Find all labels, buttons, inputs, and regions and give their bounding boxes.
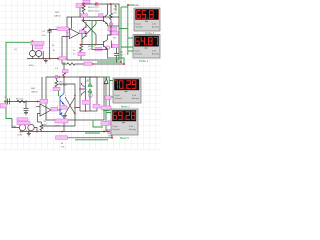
wire V2 left: [12, 119, 19, 128]
svg-text:Sample: Sample: [115, 98, 123, 100]
wire bottom rail: [20, 128, 110, 132]
node dot: [95, 44, 97, 46]
node dot: [49, 29, 51, 31]
node dot: [123, 63, 125, 65]
ring pink r5: [110, 23, 113, 26]
resistor R3 horizontal: [17, 100, 25, 102]
wire stub v1r: [42, 51, 44, 59]
source V2 circles: [19, 124, 25, 130]
node dot: [31, 40, 33, 42]
label pink R9: [63, 70, 69, 73]
ring pink probe: [89, 94, 93, 98]
label pink base node: [60, 106, 67, 109]
wire inner stubs: [89, 77, 91, 111]
label pink m4pin1: [108, 121, 111, 125]
node dot: [28, 131, 30, 133]
node dot: [95, 3, 97, 5]
node dot: [103, 131, 105, 133]
node dot: [20, 131, 22, 133]
node dot: [42, 58, 44, 60]
arrow Q5 blue: [62, 102, 64, 104]
wire input green left loop: [6, 42, 32, 118]
node dot: [74, 95, 76, 97]
wire top supply rail: [80, 4, 119, 17]
wire U2 out: [51, 109, 60, 111]
svg-text:Sample: Sample: [113, 129, 121, 131]
svg-text:Digits: Digits: [136, 23, 142, 26]
op-amp U1: [70, 29, 80, 39]
arrow QT1: [105, 22, 107, 24]
wire green meter3 column: [104, 77, 113, 111]
node dot: [110, 31, 112, 33]
svg-text:R3 10k: R3 10k: [16, 99, 24, 101]
diode D3: [104, 77, 108, 120]
svg-text:UA741: UA741: [31, 91, 38, 94]
label pink in2: [40, 99, 48, 103]
transistor Q3 mirrored top: [82, 20, 86, 45]
capacitor C2: [8, 99, 10, 105]
transistor QT2 right bottom: [104, 38, 108, 50]
resistor R6: [40, 122, 43, 132]
resistor R10 inner: [55, 79, 58, 88]
label pink out2: [51, 107, 58, 111]
wire Q5 Q6 links: [60, 77, 64, 132]
label pink rail b: [76, 4, 82, 8]
node dot: [37, 101, 39, 103]
svg-text:(V): (V): [14, 49, 17, 51]
node dot: [92, 63, 94, 65]
node dot: [57, 58, 59, 60]
wire gnd rail stage1: [27, 57, 62, 65]
wire bottom feedback: [68, 135, 113, 138]
node dot: [74, 113, 76, 115]
label pink Rl: [56, 136, 68, 140]
label pink low a: [78, 52, 85, 55]
label pink in1: [57, 27, 69, 31]
svg-text:Analog: Analog: [132, 97, 140, 100]
box subcircuit stage 1: [67, 17, 119, 60]
svg-text:Sample: Sample: [135, 54, 143, 56]
wire green low: [75, 139, 108, 141]
node dot: [111, 44, 113, 46]
node dot: [25, 101, 27, 103]
resistor R9 stage2 top: [63, 62, 66, 77]
label pink out1: [79, 30, 85, 34]
wire QT1 collector: [107, 4, 109, 14]
node dot: [103, 110, 105, 112]
wire right column: [42, 84, 81, 126]
wire green box link: [119, 28, 128, 30]
wire base feed: [84, 20, 104, 22]
wire green meter1 stub: [128, 4, 134, 6]
svg-text:Digits: Digits: [115, 94, 121, 97]
capacitor C3 vertical: [24, 102, 29, 113]
node dot: [4, 101, 6, 103]
svg-text:UA741: UA741: [54, 15, 61, 18]
wire U2 plus input: [36, 106, 42, 122]
label pink m4pin2: [108, 130, 111, 134]
label pink m3b: [101, 106, 111, 110]
capacitor C1: [114, 48, 119, 63]
svg-text:Sample: Sample: [136, 27, 144, 29]
ring pink qt2: [106, 46, 109, 49]
svg-text:Analog: Analog: [129, 128, 137, 131]
arrow Q3: [82, 28, 84, 30]
transistor Q7 blue inner: [82, 85, 86, 95]
svg-text:Meter 5: Meter 5: [120, 136, 129, 140]
meter XMM2: [133, 35, 160, 59]
ring pink rail1: [82, 3, 85, 6]
wire green meter feed B: [127, 5, 129, 55]
meter XMM4: [111, 109, 138, 135]
wire U1 feedback: [71, 17, 73, 29]
node dot: [36, 131, 38, 133]
arrow QT2: [105, 47, 107, 49]
wire green inner: [58, 91, 60, 96]
node dot: [41, 101, 43, 103]
ring pink connector: [55, 75, 58, 78]
svg-text:BC547 QT1: BC547 QT1: [88, 7, 100, 9]
node dot: [63, 76, 65, 78]
label pink rail1: [59, 57, 66, 60]
wire Q7: [80, 77, 86, 111]
node dot: [85, 110, 87, 112]
svg-text:Analog: Analog: [152, 53, 160, 56]
transistor Q5 blue top: [60, 94, 64, 105]
node dot: [79, 88, 81, 90]
wire green meter4 stubs: [106, 113, 111, 132]
transistor QT1 right: [104, 14, 108, 27]
node dot: [111, 137, 113, 139]
label pink rail a: [83, 0, 90, 3]
wire input rail bottom: [5, 101, 40, 103]
box inner stage 2: [80, 77, 97, 111]
label pink R2: [81, 14, 88, 17]
transistor Q4 mirrored bottom: [82, 30, 86, 40]
node dot: [127, 4, 129, 6]
svg-text:Digits: Digits: [113, 125, 119, 128]
svg-text:Analog: Analog: [152, 26, 160, 29]
wire U1 inputs: [50, 30, 87, 59]
node dot: [74, 107, 76, 109]
node dot: [59, 76, 61, 78]
wire green emitter down: [92, 21, 124, 64]
wire emitter row: [108, 25, 120, 27]
node dot: [61, 131, 63, 133]
wire green top link: [121, 6, 128, 8]
ground C3: [24, 113, 28, 115]
node dot: [83, 3, 85, 5]
label pink m4a: [101, 122, 109, 126]
diode DG1 green: [88, 79, 91, 86]
capacitor C4: [47, 30, 51, 59]
svg-text:Meter 2: Meter 2: [121, 105, 130, 109]
arrow Q6 blue: [60, 112, 62, 114]
meter XMM3: [113, 78, 141, 103]
svg-text:Digits: Digits: [135, 50, 141, 53]
ring pink rail2: [95, 3, 98, 6]
label pink m3a: [105, 96, 111, 100]
resistor R8 emitter: [80, 45, 83, 60]
ground Q emitter: [63, 114, 67, 118]
node dot: [80, 44, 82, 46]
node dot: [83, 20, 85, 22]
label pink V2b: [17, 121, 30, 124]
diode DG2 green: [88, 89, 91, 97]
wire green meter2 stubs: [121, 38, 133, 51]
wire U2 feedback: [41, 77, 43, 102]
svg-text:16V: 16V: [120, 55, 124, 57]
label pink C3: [1, 104, 7, 109]
op-amp U2: [40, 104, 51, 116]
box subcircuit stage 2: [46, 77, 104, 120]
ground bottom: [27, 132, 31, 136]
svg-text:MJE: MJE: [55, 126, 60, 128]
node dot: [110, 25, 112, 27]
label pink inner: [83, 100, 91, 104]
wire V1 stem: [31, 42, 33, 50]
source V1 circles: [30, 51, 36, 57]
wire green bottom link: [85, 120, 103, 133]
label pink TIP: [55, 119, 68, 123]
label pink R10: [53, 87, 60, 90]
node dot: [110, 3, 112, 5]
label pink rail64: [84, 62, 92, 65]
label pink r5b: [110, 32, 119, 35]
label pink inner b: [93, 104, 100, 108]
node dot: [115, 5, 117, 7]
label pink V1b: [35, 45, 43, 49]
wire long rail y64: [62, 63, 124, 65]
node dot: [120, 61, 122, 63]
svg-text:XMM1: XMM1: [133, 5, 140, 7]
resistor R5: [110, 4, 113, 26]
wire cross X: [86, 21, 96, 45]
wire green low link: [97, 61, 121, 63]
label pink r5a: [108, 28, 117, 31]
wire R2 to node: [83, 17, 85, 21]
meter XMM1: [134, 8, 160, 31]
ground stage1: [44, 59, 48, 63]
node dot: [49, 58, 51, 60]
label pink low b: [95, 48, 102, 51]
wire lower row: [81, 26, 112, 48]
svg-text:BC557 QT2: BC557 QT2: [88, 11, 100, 13]
label pink V2a: [17, 118, 28, 121]
label pink low c: [112, 44, 119, 48]
resistor R2: [82, 4, 85, 14]
svg-text:Probe 1: Probe 1: [139, 59, 149, 63]
label pink V1a: [31, 42, 44, 46]
wire cross X2: [65, 97, 75, 114]
wire green meter feed A: [120, 7, 122, 62]
svg-text:COM: COM: [17, 135, 22, 137]
svg-text:FRQ: FRQ: [29, 65, 34, 67]
transistor Q6 blue bottom: [60, 107, 64, 118]
